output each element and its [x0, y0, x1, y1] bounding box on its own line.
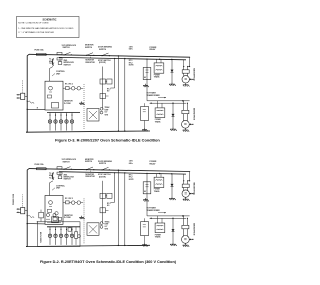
wire - ladder stub (Fig upper) [114, 59, 116, 89]
svg-text:SWITCH: SWITCH [63, 161, 71, 163]
svg-text:TRANSFORMER: TRANSFORMER [147, 209, 161, 212]
wire - bottom neutral rail (Fig upper) [26, 131, 150, 132]
junction bottom rail x125 (Fig lower) [124, 245, 125, 246]
wire - line 2 rail (Fig lower) [59, 172, 186, 174]
junction bottom rail x125 (Fig upper) [124, 130, 125, 131]
wire - control dashed boundary (Fig upper) [83, 84, 85, 129]
svg-text:RY-1 RY-2: RY-1 RY-2 [65, 198, 73, 200]
wire - drop to HV feed (Fig upper) [146, 59, 148, 101]
ground - magnetron MG1 (Fig lower) [185, 198, 187, 200]
power cord squiggle (Fig lower) [27, 215, 35, 218]
interlock switch S2 (Fig upper) [86, 55, 87, 56]
power relay unit RY3 box (Fig upper) [87, 109, 99, 122]
wire - left side conductor (Fig upper) [26, 54, 29, 132]
interference capacitor CN (Fig lower) [39, 212, 44, 218]
svg-text:RY-1 RY-2: RY-1 RY-2 [65, 84, 73, 86]
oven lamp L1 (Fig upper) [49, 113, 51, 131]
wire - load feed rail (Fig lower) [47, 226, 80, 228]
junction bottom rail x118 (Fig lower) [118, 245, 119, 246]
svg-text:TRANSFORMER: TRANSFORMER [147, 94, 161, 97]
legend box border [17, 17, 80, 38]
svg-text:SWITCH: SWITCH [99, 49, 107, 51]
svg-text:SWITCH: SWITCH [85, 161, 93, 163]
svg-text:RY-2: RY-2 [107, 89, 111, 91]
junction T1 on line 2 (Fig lower) [159, 173, 160, 174]
ground - magnetron MG1 (Fig upper) [185, 83, 187, 85]
svg-text:SWITCH: SWITCH [99, 163, 107, 165]
HV diode D1 (Fig lower) [171, 174, 173, 197]
svg-text:RELAY: RELAY [150, 162, 157, 165]
interlock switch S2 (Fig lower) [86, 169, 87, 170]
wire - control dashed boundary (Fig lower) [83, 198, 85, 243]
junction on line 1 (Fig upper) [118, 55, 119, 56]
fan motor FM (Fig upper) [55, 113, 57, 131]
wire - left side conductor (Fig lower) [26, 169, 29, 247]
svg-text:POWER: POWER [155, 234, 162, 236]
fuse F1 15A (Fig lower) [37, 168, 47, 170]
power plug P1 (Fig upper) [21, 93, 25, 99]
svg-text:FUSE 15A: FUSE 15A [35, 49, 45, 52]
relay coil RY2 inside control unit (Fig lower) [55, 212, 58, 215]
pilot contacts above relay unit (Fig upper) [100, 107, 103, 110]
wire - line 2 rail (Fig upper) [59, 57, 186, 59]
svg-text:SCHEMATIC: SCHEMATIC [42, 18, 56, 21]
thermal cutout TC1 (Fig lower) [57, 167, 62, 169]
relay contact RY-4 pair (Fig lower) [100, 193, 106, 198]
wire - magnetron leads from rails (Fig upper) [188, 57, 190, 66]
wire - drop at x118 (Fig upper) [117, 56, 119, 131]
relay contact RY-4 pair (Fig upper) [100, 79, 106, 84]
wire - T2 primary stubs (Fig upper) [157, 101, 159, 108]
relay contact RY-2 (Fig lower) [71, 201, 75, 205]
wire - plug dashed stub (Fig lower) [22, 194, 24, 207]
wire - control unit feed (Fig lower) [50, 181, 54, 196]
wire - neutral branch to control unit (Fig upper) [27, 108, 45, 110]
magnetron MG2 (Fig lower) [182, 216, 184, 226]
ground - HV diode D1 (Fig lower) [171, 197, 173, 199]
relay contact RY-1 (Fig upper) [66, 87, 70, 90]
junction HV feed (Fig upper) [172, 103, 173, 104]
wire - drop at x125 (Fig lower) [124, 173, 126, 246]
stirrer motor SM (Fig upper) [66, 113, 68, 131]
fan motor FM (Fig lower) [55, 227, 57, 245]
oven lamp L1 (Fig lower) [49, 227, 51, 245]
ground - HV diode D2 (Fig lower) [172, 243, 174, 245]
junction on line 2 (Fig upper) [124, 58, 125, 59]
wire - line 1 top rail (Fig lower) [29, 169, 190, 172]
svg-text:MAGNETRON: MAGNETRON [192, 108, 195, 121]
svg-text:SWITCH: SWITCH [64, 179, 72, 181]
ground - HV capacitor C1 (Fig lower) [145, 198, 147, 200]
wire - HV feed rail lower (Fig lower) [150, 217, 186, 219]
ground - control unit (Fig lower) [81, 216, 83, 218]
auxiliary contact block (Fig lower) [68, 228, 71, 231]
power plug P1 (Fig lower) [21, 208, 25, 214]
wire - bottom neutral rail (Fig lower) [26, 245, 150, 246]
damper motor DM (Fig upper) [71, 113, 73, 131]
svg-text:POWER: POWER [155, 119, 162, 121]
ground - HV capacitor C1 (Fig upper) [145, 84, 147, 86]
svg-text:{: { [51, 57, 54, 66]
thermistor TH1 (Fig lower) [58, 176, 62, 179]
interlock switch S1 (Fig lower) [63, 169, 64, 170]
svg-text:POWER: POWER [154, 74, 161, 76]
junction on line 2 (Fig lower) [124, 172, 125, 173]
wire - monitor link (Fig upper) [90, 55, 92, 58]
ground - magnetron MG2 (Fig lower) [184, 244, 186, 246]
HV capacitor C1 (Fig lower) [143, 182, 151, 194]
control unit U1 (Fig upper) [45, 81, 63, 110]
power transformer T1 (Fig lower) [154, 177, 164, 187]
interlock switch S3 (Fig lower) [101, 169, 102, 170]
svg-text:D-CODE: D-CODE [64, 103, 72, 105]
triac inside relay unit (Fig lower) [89, 225, 97, 233]
relay contact RY-2 (Fig upper) [71, 87, 75, 91]
relay coil inside control unit (Fig lower) [49, 201, 53, 205]
heater element (Fig lower) [75, 232, 78, 239]
svg-text:SWITCH: SWITCH [63, 47, 71, 49]
HV capacitor C1 (Fig upper) [143, 68, 151, 80]
thermal cutout TC1 (Fig upper) [57, 52, 62, 54]
wire - T2 primary stubs (Fig lower) [157, 216, 159, 223]
wire - plug dashed stub (Fig upper) [22, 80, 24, 93]
relay contact RY-5 (Fig lower) [100, 208, 106, 213]
svg-text:(DOOR): (DOOR) [99, 176, 106, 178]
interlock switch S3 (Fig upper) [101, 55, 102, 56]
thermal cutout TC2 (Fig upper) [57, 58, 62, 60]
power transformer T1 (Fig upper) [154, 63, 164, 73]
wire - monitor link (Fig lower) [90, 170, 92, 173]
ground - HV diode D2 (Fig upper) [172, 128, 174, 130]
turntable motor TTM (Fig lower) [60, 227, 62, 245]
wire - ladder stub (Fig lower) [114, 173, 116, 203]
junction on line 1 (Fig lower) [118, 170, 119, 171]
load group box (Fig lower) [38, 222, 81, 247]
wire - relay ladder feed (Fig lower) [102, 181, 104, 223]
wire - neutral branch to control unit (Fig lower) [27, 223, 45, 225]
svg-text:NOTE: CONDITION OF OVEN: NOTE: CONDITION OF OVEN [18, 22, 48, 24]
pilot contacts above relay unit (Fig lower) [100, 222, 103, 225]
interlock switch S1 (Fig upper) [63, 54, 64, 55]
svg-text:(DOOR): (DOOR) [99, 62, 106, 64]
wire - line 1 top rail (Fig upper) [29, 54, 190, 57]
HV capacitor C2 (Fig lower) [141, 222, 149, 236]
relay contact RY-1 (Fig lower) [66, 201, 70, 204]
magnetron MG2 (Fig upper) [182, 101, 184, 111]
svg-text:{: { [51, 171, 54, 180]
svg-text:MAGNETRON: MAGNETRON [192, 223, 195, 236]
wire - drop to HV feed (Fig lower) [146, 173, 148, 216]
power cord squiggle (Fig upper) [27, 101, 35, 104]
thermal cutout TC2 (Fig lower) [57, 172, 62, 174]
svg-text:MAGNETRON: MAGNETRON [193, 183, 196, 196]
control unit U1 (Fig lower) [45, 196, 63, 225]
wire - drop at x118 (Fig lower) [117, 170, 119, 245]
relay coil RY3 inside control unit (Fig lower) [46, 213, 49, 216]
svg-text:POWER: POWER [154, 189, 161, 191]
wire - load feed rail (Fig upper) [47, 112, 80, 114]
svg-text:Figure D-3. R-2000/2207 Oven: Figure D-3. R-2000/2207 Oven Schematic-I… [55, 137, 160, 142]
wire - HV feed rail upper (Fig lower) [147, 215, 190, 217]
junction HV feed (Fig lower) [172, 218, 173, 219]
HV diode D2 (Fig lower) [172, 218, 174, 242]
HV diode D2 (Fig upper) [172, 103, 174, 127]
svg-text:POWER CORD: POWER CORD [13, 193, 15, 205]
wire - HV feed rail upper (Fig upper) [147, 100, 190, 102]
svg-text:RESISTOR: RESISTOR [86, 62, 96, 64]
svg-text:SWITCH: SWITCH [64, 64, 72, 66]
junction bottom rail x118 (Fig upper) [118, 130, 119, 131]
svg-text:RELAY: RELAY [150, 48, 157, 51]
HV diode D1 (Fig upper) [171, 60, 173, 83]
wire - magnetron leads from rails (Fig lower) [188, 172, 190, 181]
ground - control unit (Fig upper) [81, 102, 83, 104]
svg-text:Figure D-2. R-20ET/94GT Oven: Figure D-2. R-20ET/94GT Oven Schematic-I… [40, 260, 177, 264]
HV capacitor C2 (Fig upper) [141, 107, 149, 121]
junction T1 on line 2 (Fig upper) [159, 59, 160, 60]
wire - relay ladder feed (Fig upper) [102, 67, 104, 109]
damper motor DM (Fig lower) [71, 227, 73, 245]
relay contact RY-3 (Fig upper) [77, 87, 81, 91]
svg-text:60Hz: 60Hz [129, 163, 133, 165]
svg-text:FUSE 15A: FUSE 15A [35, 163, 45, 166]
stirrer motor SM (Fig lower) [66, 227, 68, 245]
power transformer T2 (Fig lower) [155, 223, 165, 233]
wire - control unit feed (Fig upper) [50, 67, 54, 82]
svg-text:MAGNETRON: MAGNETRON [193, 68, 196, 81]
relay contact RY-5 (Fig upper) [100, 94, 106, 99]
wire - HV feed rail lower (Fig upper) [150, 102, 186, 104]
relay RY-A inside control unit (Fig upper) [52, 103, 59, 109]
turntable motor TTM (Fig upper) [60, 113, 62, 131]
wire - drop at x125 (Fig upper) [124, 59, 126, 132]
wire - T1 primary stubs (Fig lower) [156, 174, 158, 178]
ground - HV diode D1 (Fig upper) [171, 83, 173, 85]
svg-text:NOISE FILTER: NOISE FILTER [41, 231, 43, 243]
ground - magnetron MG2 (Fig upper) [184, 128, 186, 130]
svg-text:RY-2: RY-2 [107, 203, 111, 205]
magnetron MG1 (Fig upper) [183, 67, 185, 70]
relay contact RY-3 (Fig lower) [77, 201, 81, 205]
power transformer T2 (Fig upper) [155, 108, 165, 118]
ground - HV capacitor C2 (Fig lower) [144, 243, 146, 245]
wire - T1 primary stubs (Fig upper) [156, 59, 158, 63]
svg-text:SWITCH: SWITCH [85, 47, 93, 49]
thermistor TH1 (Fig upper) [58, 62, 62, 65]
svg-text:1. ONE MINUTE HAS PASSED AFTER: 1. ONE MINUTE HAS PASSED AFTER DOOR CLOS… [18, 27, 73, 30]
svg-text:60Hz: 60Hz [129, 49, 133, 51]
svg-text:RESISTOR: RESISTOR [86, 176, 96, 178]
relay RY-A inside control unit (Fig lower) [52, 217, 59, 223]
relay coil inside control unit (Fig upper) [49, 86, 53, 90]
magnetron MG1 (Fig lower) [183, 181, 185, 184]
svg-text:D-CODE: D-CODE [64, 217, 72, 219]
svg-text:2. ": 0" APPEARS ON THE DISPLA: 2. ": 0" APPEARS ON THE DISPLAY [18, 31, 54, 34]
triac inside relay unit (Fig upper) [89, 111, 97, 119]
ground - HV capacitor C2 (Fig upper) [144, 128, 146, 130]
power relay unit RY3 box (Fig lower) [87, 223, 99, 236]
fuse F1 15A (Fig upper) [37, 53, 47, 55]
